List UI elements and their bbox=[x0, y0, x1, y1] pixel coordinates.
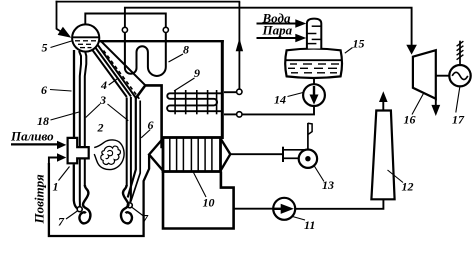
air preheater 10 box bbox=[163, 138, 221, 172]
node: superheater inlet circle bbox=[163, 27, 168, 32]
leader line 9 bbox=[174, 78, 195, 91]
festoon tube 4 line4 dashed bbox=[104, 51, 140, 99]
bottom housing with step bbox=[163, 172, 234, 229]
economizer tick 5 bbox=[216, 90, 218, 114]
svg-text:18: 18 bbox=[37, 114, 49, 128]
svg-text:7: 7 bbox=[58, 215, 65, 229]
svg-text:6: 6 bbox=[41, 83, 47, 97]
wire: drum to superheater inlet bbox=[85, 14, 166, 30]
grid connection symbol bbox=[459, 41, 461, 65]
economizer 9 serpentine bbox=[167, 93, 221, 111]
air preheater right duct triangle bbox=[221, 139, 231, 171]
leader line 13 bbox=[314, 166, 324, 182]
furnace left wall (casing 6) upper bbox=[73, 50, 75, 138]
forced draft fan 13 bbox=[299, 150, 317, 168]
steam drum 5 bbox=[72, 24, 99, 51]
svg-text:Паливо: Паливо bbox=[10, 129, 54, 144]
economizer tick 4 bbox=[207, 90, 209, 114]
feed pump 14 bbox=[303, 84, 325, 106]
boiler roof bbox=[97, 40, 224, 42]
svg-text:12: 12 bbox=[402, 180, 414, 194]
svg-text:16: 16 bbox=[404, 113, 416, 127]
air preheater hatch bbox=[170, 138, 212, 172]
node: economizer outlet top bbox=[237, 89, 242, 94]
festoon tube 4 line3 bbox=[96, 43, 136, 98]
arrowhead into drum bbox=[58, 27, 72, 38]
svg-text:3: 3 bbox=[99, 93, 106, 107]
leader line 1 bbox=[59, 167, 70, 181]
air duct arrow into burner bbox=[49, 158, 58, 166]
superheater U1 coil bbox=[125, 30, 166, 76]
economizer outlet stub bbox=[224, 113, 237, 115]
feed line: economizer inlet to feed pump bbox=[242, 106, 314, 114]
wire: main steam line to turbine bbox=[125, 8, 412, 46]
deaerator tank water hatching bbox=[288, 64, 339, 73]
wire: feedwater top horizontal line bbox=[56, 1, 241, 3]
flue line to ID fan bbox=[234, 208, 274, 210]
fan motor pole bbox=[307, 123, 309, 150]
boiler right wall bbox=[221, 40, 224, 139]
ID fan 11 bbox=[273, 198, 295, 220]
leader line 7 right bbox=[132, 207, 144, 216]
arrowhead into turbine bbox=[406, 45, 417, 55]
leader line 11 bbox=[293, 217, 306, 221]
leader line 10 bbox=[194, 173, 207, 198]
leader line 17 bbox=[456, 87, 460, 113]
fan flag bbox=[308, 123, 312, 134]
leader line 15 bbox=[345, 48, 353, 54]
deaerator column bbox=[307, 19, 321, 49]
wire: feedwater riser from economizer outlet up bbox=[238, 2, 240, 91]
festoon tube 4 line5 bbox=[101, 41, 145, 85]
water inlet arrow (Вода) bbox=[257, 23, 298, 25]
hook 7 left (fishhook) bbox=[79, 185, 90, 223]
intake duct upper line bbox=[283, 149, 305, 151]
intake duct lower line bbox=[283, 157, 299, 159]
steam inlet arrow (Пара) bbox=[257, 37, 298, 39]
leader line 3 right bbox=[108, 104, 129, 121]
flame 2 in furnace bbox=[94, 140, 124, 170]
leader line 5 bbox=[51, 41, 72, 48]
leader line 8 bbox=[169, 54, 184, 62]
leader line 18 bbox=[51, 112, 80, 120]
leader line 6 right bbox=[141, 130, 150, 138]
leader line 4 bbox=[109, 79, 117, 85]
svg-text:8: 8 bbox=[183, 43, 189, 57]
rear wall panel left edge bbox=[128, 98, 136, 198]
node: superheater outlet circle bbox=[122, 27, 127, 32]
fuel arrow (Паливо) bbox=[11, 143, 58, 145]
rear wall panel outline bbox=[136, 85, 162, 148]
flue line to chimney bbox=[295, 200, 383, 209]
node: economizer inlet bottom bbox=[237, 112, 242, 117]
turbine 16 bbox=[413, 50, 436, 98]
svg-text:7: 7 bbox=[142, 212, 149, 226]
leader line 16 bbox=[412, 93, 424, 115]
deaerator water line bbox=[285, 59, 343, 61]
svg-text:9: 9 bbox=[194, 66, 200, 80]
turbine to generator shaft bbox=[436, 75, 450, 77]
chimney exhaust arrow bbox=[382, 99, 384, 111]
turbine exhaust arrow bbox=[435, 99, 437, 107]
air intake T-bar bbox=[282, 147, 284, 162]
lower header node 7 right bbox=[127, 203, 132, 208]
svg-text:Повітря: Повітря bbox=[32, 174, 47, 224]
economizer tick 3 bbox=[196, 90, 198, 114]
wire: feedwater drop to drum bbox=[57, 1, 64, 33]
svg-text:Пара: Пара bbox=[262, 23, 293, 38]
svg-text:10: 10 bbox=[203, 196, 215, 210]
svg-text:15: 15 bbox=[353, 37, 365, 51]
deaerator 15 tank bbox=[285, 49, 342, 78]
svg-text:6: 6 bbox=[148, 118, 154, 132]
leader line 7 left bbox=[66, 211, 78, 220]
division wall tube B bbox=[129, 97, 132, 202]
air casing box bbox=[49, 155, 149, 237]
division wall tube A bbox=[126, 98, 128, 187]
chimney 12 bbox=[371, 111, 394, 200]
svg-text:2: 2 bbox=[97, 121, 104, 135]
leader line 3 left bbox=[86, 104, 100, 118]
duct to forced draft fan bbox=[230, 153, 283, 155]
generator 17 bbox=[449, 65, 470, 86]
hook 7 right (fishhook) bbox=[121, 185, 132, 223]
svg-text:11: 11 bbox=[304, 218, 315, 232]
svg-text:5: 5 bbox=[42, 41, 48, 55]
burner 1 body bbox=[68, 138, 89, 163]
leader line 12 bbox=[388, 170, 404, 183]
lower header node 7 left bbox=[77, 207, 82, 212]
leader line 14 bbox=[288, 93, 304, 97]
festoon tube 4 line1 bbox=[90, 46, 127, 97]
drum water hatching bbox=[75, 41, 96, 48]
downcomer 18 tube line B (into hook) bbox=[85, 49, 87, 186]
downcomer 18 tube line A bbox=[79, 51, 81, 207]
economizer tick 1 bbox=[174, 90, 176, 114]
leader line 6 left bbox=[50, 90, 72, 92]
arrowhead up on feedwater riser bbox=[236, 38, 243, 51]
air preheater left duct triangle bbox=[149, 139, 163, 171]
wire: deaerator tank to feed pump bbox=[313, 79, 315, 85]
economizer tick 2 bbox=[185, 90, 187, 114]
furnace left wall lower + bend to header bbox=[74, 164, 78, 208]
svg-text:13: 13 bbox=[322, 178, 334, 192]
svg-text:4: 4 bbox=[100, 78, 107, 92]
svg-text:14: 14 bbox=[274, 93, 286, 107]
svg-text:17: 17 bbox=[452, 113, 465, 127]
festoon tube 4 line2 bbox=[93, 44, 131, 97]
rear wall panel inner tube bbox=[131, 101, 140, 202]
svg-text:1: 1 bbox=[53, 180, 59, 194]
column tray lines bbox=[307, 26, 321, 43]
